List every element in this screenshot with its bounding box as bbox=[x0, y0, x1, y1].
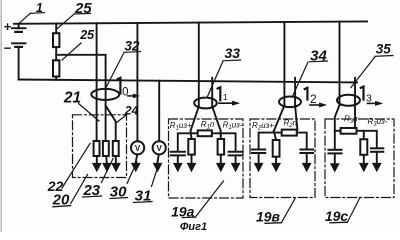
current arrow I1 bbox=[218, 87, 240, 105]
label 32 bbox=[106, 39, 140, 88]
wire bottom rail to voltmeter 31 bbox=[158, 81, 160, 142]
current transformer 33 bbox=[194, 98, 217, 109]
current transformer 35 bbox=[337, 95, 360, 106]
svg-text:V: V bbox=[135, 144, 141, 153]
svg-text:R1из+: R1из+ bbox=[170, 121, 192, 132]
resistor R1iz- vertical bbox=[218, 139, 225, 155]
ground under cap 19c left bbox=[330, 153, 339, 172]
wire left node to R3p bbox=[335, 130, 341, 132]
wire right node to cap 19b bbox=[297, 133, 307, 149]
box 20 dash-dot bbox=[73, 115, 127, 178]
svg-text:R2из+: R2из+ bbox=[252, 121, 274, 132]
label 23 bbox=[82, 159, 113, 199]
ground under cap 19b left bbox=[254, 153, 263, 172]
label 30 bbox=[110, 162, 137, 200]
ground under resistor R3iz- bbox=[359, 155, 368, 172]
wire right node of R3p bbox=[357, 131, 377, 148]
ground under resistor 24 bbox=[112, 156, 121, 172]
current transformer 34 bbox=[279, 97, 301, 108]
wire CT34 right conductor from bottom rail bbox=[294, 78, 296, 106]
label 33 bbox=[208, 45, 241, 97]
ground under cap 19a left bbox=[173, 155, 182, 171]
label 22 bbox=[47, 144, 90, 194]
ground under resistor R1iz- bbox=[216, 155, 225, 172]
wire CT32 right conductor down to resistor 23 bbox=[105, 62, 107, 141]
wire right node down to resistor bbox=[220, 131, 222, 139]
label 19c bbox=[325, 198, 360, 225]
label 20 bbox=[52, 175, 88, 209]
label 1 bbox=[19, 1, 44, 23]
resistor R3iz- vertical bbox=[360, 139, 367, 155]
capacitor 19c left bbox=[328, 150, 341, 154]
wire CT35 left conductor from top rail bbox=[339, 22, 341, 105]
ground under voltmeter 31 bbox=[153, 154, 162, 171]
label 25 upper bbox=[57, 0, 93, 29]
label 34 bbox=[293, 47, 328, 96]
svg-text:V: V bbox=[157, 144, 163, 153]
current transformer 32 bbox=[91, 89, 119, 100]
wire divider tap to CT 32 bbox=[56, 55, 105, 62]
ground under resistor 22 bbox=[92, 156, 101, 172]
capacitor 19b left bbox=[252, 150, 265, 154]
wire top rail bbox=[14, 21, 367, 23]
ground under resistor R2iz+ bbox=[272, 157, 281, 172]
resistor R2iz+ vertical bbox=[273, 140, 280, 157]
resistor R3p horizontal bbox=[341, 128, 357, 134]
svg-text:Фиг1: Фиг1 bbox=[180, 221, 207, 232]
capacitor 19b right bbox=[300, 150, 313, 154]
resistor 22 bbox=[94, 141, 100, 156]
box 19c dash-dot bbox=[325, 119, 394, 198]
resistor 23 bbox=[103, 141, 109, 156]
svg-text:R3из-: R3из- bbox=[368, 117, 388, 128]
svg-text:33: 33 bbox=[225, 45, 241, 61]
svg-text:35: 35 bbox=[376, 42, 392, 57]
label 31 bbox=[134, 165, 159, 205]
wire stub down to resistor R3iz- bbox=[363, 131, 365, 139]
svg-text:1: 1 bbox=[223, 92, 228, 102]
svg-text:R2п: R2п bbox=[284, 119, 298, 130]
svg-text:R1из-: R1из- bbox=[223, 121, 243, 132]
svg-text:25: 25 bbox=[79, 28, 95, 42]
capacitor 19c right bbox=[371, 148, 383, 152]
box 19a dash-dot bbox=[169, 119, 244, 198]
resistor R1p horizontal bbox=[198, 130, 212, 136]
wire left node down to resistor bbox=[274, 131, 276, 140]
current arrow I3 bbox=[361, 87, 383, 106]
resistor R2p horizontal bbox=[282, 130, 297, 136]
voltmeter 30 bbox=[131, 141, 144, 154]
resistor R1iz+ vertical bbox=[188, 139, 195, 155]
wire CT34 right lead slant bbox=[295, 106, 297, 130]
svg-text:19с: 19с bbox=[325, 208, 349, 224]
label 24 bbox=[117, 103, 139, 122]
wire CT33 left lead slant bbox=[191, 107, 199, 131]
current arrow I0 bbox=[118, 78, 140, 99]
wire left node to cap 19a bbox=[178, 133, 198, 151]
ground under voltmeter 30 bbox=[131, 154, 140, 171]
battery 1 bbox=[4, 19, 26, 80]
capacitor 19a right bbox=[229, 152, 243, 156]
label 19a bbox=[171, 181, 223, 219]
wire divider bottom bbox=[55, 77, 57, 80]
wire left node to cap 19b bbox=[259, 133, 282, 149]
wire CT33 right lead slant bbox=[212, 107, 220, 131]
capacitor 19a left bbox=[171, 152, 185, 156]
wire slant feed to resistor 24 bbox=[106, 106, 116, 142]
wire top rail to voltmeter 30 bbox=[136, 23, 138, 141]
label 35 bbox=[351, 42, 393, 88]
resistor 24 bbox=[113, 141, 119, 156]
svg-text:R1п: R1п bbox=[201, 120, 215, 131]
wire divider chain at x=56 bbox=[55, 24, 57, 34]
svg-text:19в: 19в bbox=[256, 209, 281, 225]
wire CT35 left lead slant bbox=[335, 105, 340, 149]
label 19b bbox=[256, 199, 295, 225]
voltmeter 31 bbox=[153, 141, 166, 154]
wire left node down to resistor bbox=[190, 131, 193, 139]
wire CT33 right conductor from bottom rail bbox=[211, 78, 213, 107]
box 19b dash-dot bbox=[250, 119, 315, 198]
wire CT34 left lead slant bbox=[274, 106, 285, 132]
ground under cap 19a right bbox=[231, 155, 240, 171]
wire between divider resistors bbox=[55, 47, 57, 60]
ground under cap 19b right bbox=[302, 153, 311, 172]
label 25 lower bbox=[62, 28, 95, 60]
ground under cap 19c right bbox=[372, 152, 381, 172]
svg-text:+: + bbox=[4, 19, 12, 34]
svg-text:−: − bbox=[4, 41, 12, 56]
wire right node to cap 19a bbox=[212, 133, 236, 151]
wire CT32 left conductor from top rail to resistor 22 bbox=[96, 23, 98, 141]
svg-text:R3п: R3п bbox=[344, 115, 358, 126]
ground under resistor R1iz+ bbox=[187, 155, 196, 172]
resistor 25 upper bbox=[53, 33, 59, 47]
svg-text:2: 2 bbox=[310, 92, 317, 106]
wire CT35 right conductor from bottom rail bbox=[354, 78, 356, 128]
resistor 25 lower bbox=[53, 60, 59, 76]
label 21 bbox=[63, 90, 99, 121]
wire CT34 left conductor from top rail bbox=[283, 22, 285, 106]
ground under resistor 23 bbox=[103, 156, 112, 172]
wire bottom rail bbox=[19, 80, 357, 83]
current arrow I2 bbox=[305, 88, 327, 107]
wire CT33 left conductor from top rail bbox=[198, 23, 200, 107]
